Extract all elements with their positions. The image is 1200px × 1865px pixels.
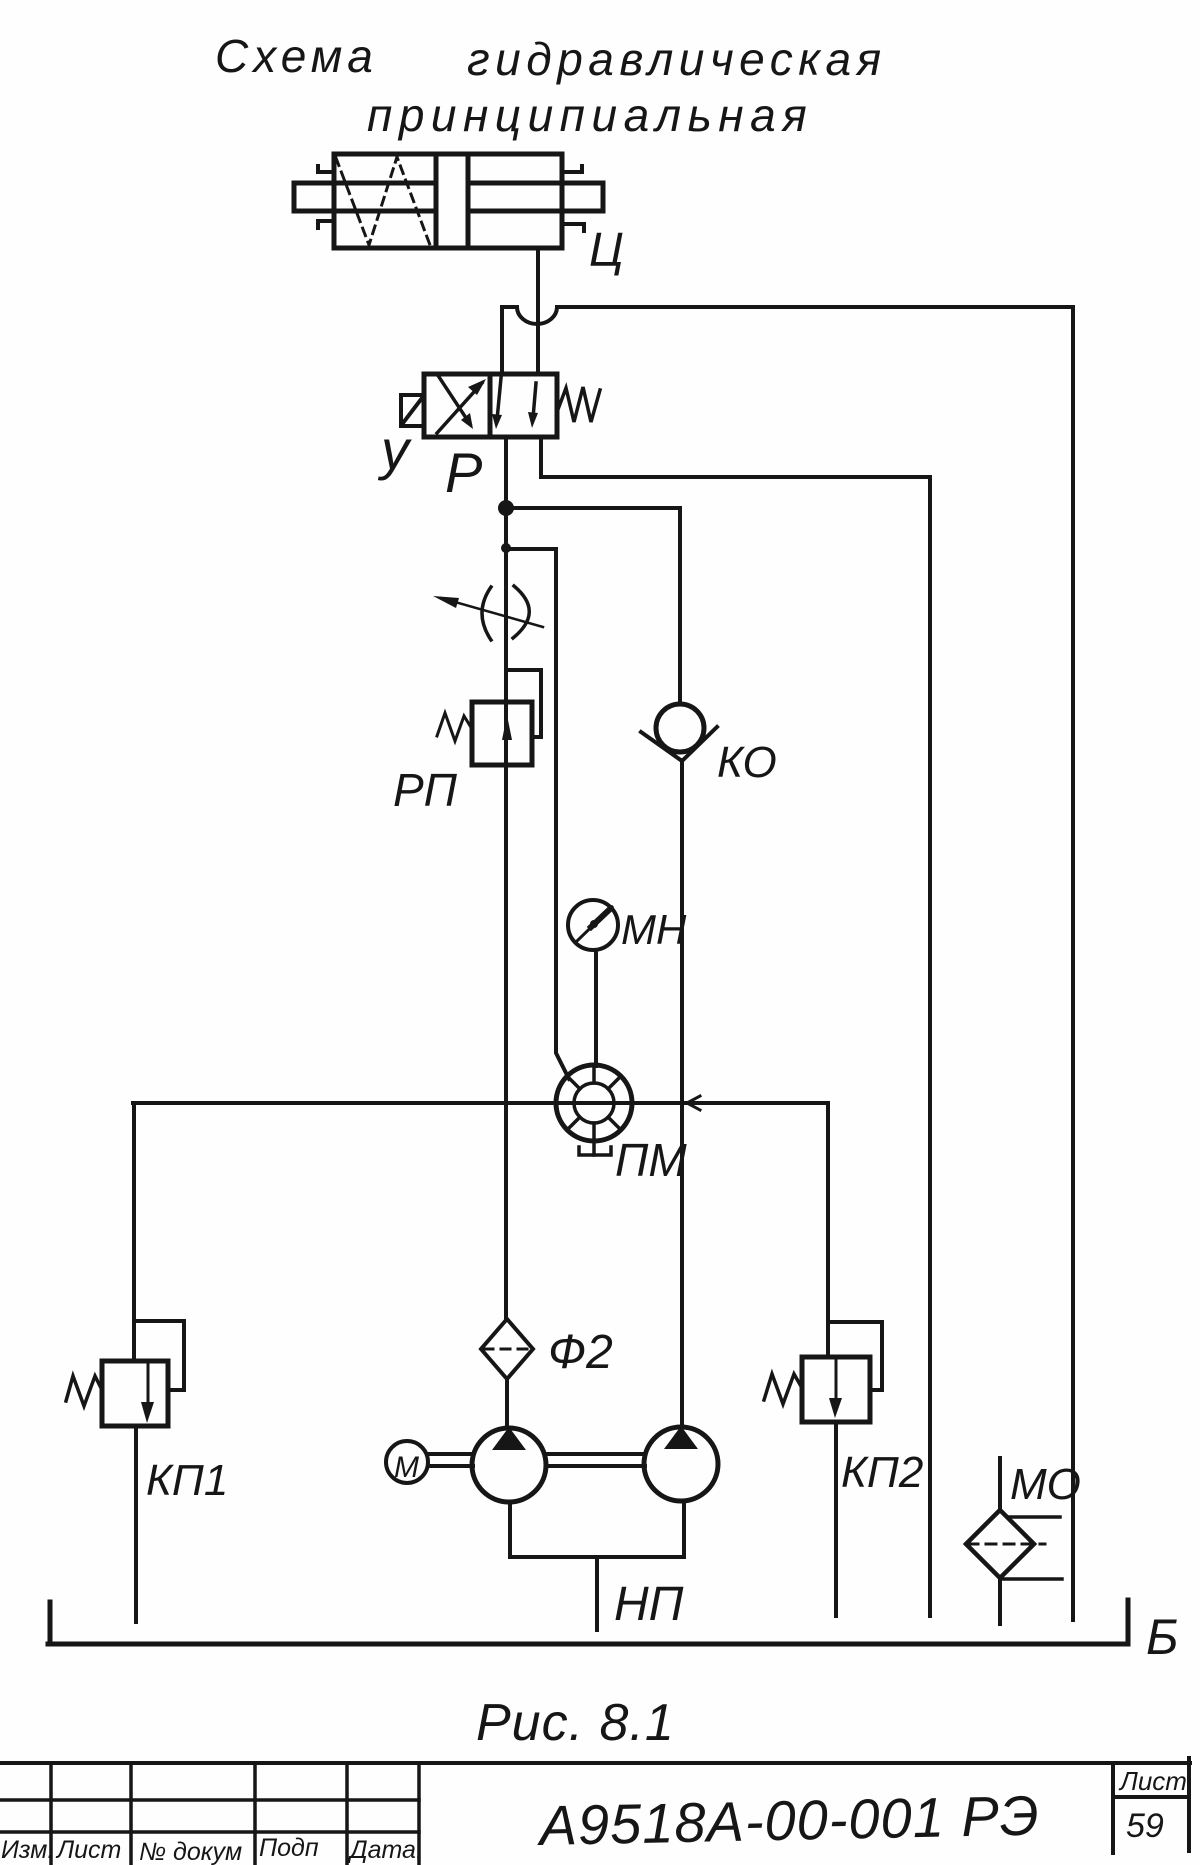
wire КП2 to tank: [834, 1422, 838, 1616]
valve Р body: [424, 374, 557, 437]
cylinder Ц rod: [294, 183, 603, 211]
svg-text:РП: РП: [393, 764, 458, 816]
wire КП1 riser: [132, 1103, 136, 1361]
wire main horizontal manifold: [133, 1101, 828, 1105]
wire right tank vertical: [1071, 307, 1075, 1620]
svg-text:59: 59: [1126, 1807, 1164, 1845]
label МН: [621, 906, 687, 953]
label Б: [1146, 1609, 1179, 1665]
relief valve КП2 body: [802, 1357, 870, 1422]
svg-text:МО: МО: [1010, 1460, 1081, 1509]
relief valve РП spring: [437, 713, 472, 741]
valve Р spring: [557, 387, 600, 422]
label У: [377, 418, 412, 481]
pump 1 (НП): [472, 1427, 546, 1502]
wire branch to check valve КО: [506, 508, 680, 704]
hydraulic motor ПМ: [556, 1065, 632, 1141]
svg-text:Р: Р: [445, 441, 482, 504]
motor ПМ drain: [579, 1141, 611, 1155]
svg-text:КП2: КП2: [841, 1448, 923, 1497]
label Р: [445, 441, 482, 504]
wire КП1 to tank: [134, 1426, 138, 1622]
svg-text:Ц: Ц: [589, 224, 624, 277]
svg-text:Б: Б: [1146, 1609, 1179, 1665]
check valve КО: [641, 704, 717, 761]
svg-text:Дата.: Дата.: [347, 1836, 423, 1864]
wire valve B-port down to T-line: [541, 437, 930, 477]
svg-text:Подп: Подп: [259, 1834, 319, 1862]
wire valve A-port up and top line to right tank drop (with hop): [502, 307, 1073, 374]
svg-text:КО: КО: [717, 738, 777, 787]
wire gauge stub: [594, 950, 598, 1066]
label Лист: [1118, 1766, 1187, 1796]
svg-text:гидравлическая: гидравлическая: [467, 33, 887, 85]
motor shaft to pump 1: [428, 1454, 473, 1466]
label ПМ: [615, 1134, 687, 1186]
label КП2: [841, 1448, 923, 1497]
svg-text:№ докум: № докум: [139, 1838, 242, 1865]
relief valve РП arrow: [502, 715, 512, 740]
wire filter to pump: [505, 1379, 509, 1428]
svg-text:Схема: Схема: [215, 30, 378, 82]
relief valve РП body: [472, 702, 532, 765]
valve Р right-cell straight arrows: [492, 378, 538, 429]
node small junction: [501, 543, 511, 553]
svg-text:ПМ: ПМ: [615, 1134, 687, 1186]
svg-text:Рис. 8.1: Рис. 8.1: [476, 1694, 675, 1752]
wire cylinder to valve (through hop): [536, 248, 540, 374]
svg-text:Лист: Лист: [1118, 1766, 1187, 1796]
svg-text:НП: НП: [614, 1578, 684, 1631]
shaft between pumps: [546, 1454, 645, 1466]
label КП1: [146, 1456, 228, 1505]
wire valve P-port down (main pressure line): [504, 437, 508, 1320]
relief valve КП2 pilot line: [828, 1322, 882, 1390]
pump 2 (НП): [644, 1426, 718, 1501]
relief valve КП2 arrow: [829, 1361, 842, 1418]
cylinder Ц mounting tabs: [318, 166, 584, 231]
label 59: [1126, 1807, 1164, 1845]
wire МО to tank: [998, 1578, 1002, 1624]
wire drain vertical to bottom right: [928, 477, 932, 1616]
title line 2: [367, 89, 813, 141]
label РП: [393, 764, 458, 816]
label НП: [614, 1578, 684, 1631]
node junction dot: [498, 500, 514, 516]
flow arrow on manifold: [687, 1096, 700, 1110]
filter Ф2: [481, 1319, 533, 1379]
wire pump suction manifold: [510, 1501, 684, 1557]
wire КП2 riser: [826, 1103, 830, 1357]
caption Рис. 8.1: [476, 1694, 675, 1752]
svg-text:А9518А-00-001 РЭ: А9518А-00-001 РЭ: [536, 1784, 1040, 1858]
relief valve КП1 pilot line: [134, 1321, 184, 1390]
throttle (adjustable) arcs: [482, 586, 529, 640]
title line 1: [215, 30, 887, 85]
title block top line: [0, 1761, 1190, 1765]
pressure gauge МН: [568, 900, 618, 950]
title block sheet box: [1113, 1758, 1189, 1853]
label Ф2: [548, 1326, 613, 1379]
relief valve КП1 spring: [66, 1376, 102, 1406]
label МО: [1010, 1460, 1081, 1509]
cylinder Ц body: [334, 154, 562, 248]
label Ц: [589, 224, 624, 277]
svg-text:у: у: [377, 418, 412, 481]
valve Р left-cell crossed arrows: [437, 377, 486, 433]
filter МО stub: [998, 1458, 1002, 1511]
filter МО: [966, 1510, 1062, 1579]
document number А9518А-00-001 РЭ: [536, 1784, 1040, 1858]
electric motor М: [386, 1441, 428, 1484]
wire КО to pump 2: [680, 760, 684, 1426]
relief valve КП2 spring: [764, 1374, 802, 1404]
svg-text:КП1: КП1: [146, 1456, 228, 1505]
cylinder Ц spring (dashed): [336, 157, 430, 245]
wire bypass branch around throttle and РП: [506, 549, 569, 1079]
tank line Б: [48, 1600, 1128, 1644]
svg-text:Лист: Лист: [55, 1836, 121, 1864]
svg-text:М: М: [394, 1451, 419, 1484]
svg-text:принципиальная: принципиальная: [367, 89, 813, 141]
svg-text:Ф2: Ф2: [548, 1326, 613, 1379]
label КО: [717, 738, 777, 787]
wire suction drop to tank: [595, 1557, 599, 1630]
svg-text:МН: МН: [621, 906, 687, 953]
title block left table grid: [0, 1763, 419, 1865]
relief valve КП1 body: [102, 1361, 168, 1426]
relief valve КП1 arrow: [141, 1365, 154, 1423]
svg-text:Изм.: Изм.: [1, 1836, 54, 1864]
throttle arrow: [433, 596, 543, 627]
relief valve РП pilot line: [506, 670, 541, 737]
title block row labels: [1, 1834, 423, 1865]
valve Р solenoid У box: [401, 395, 424, 426]
